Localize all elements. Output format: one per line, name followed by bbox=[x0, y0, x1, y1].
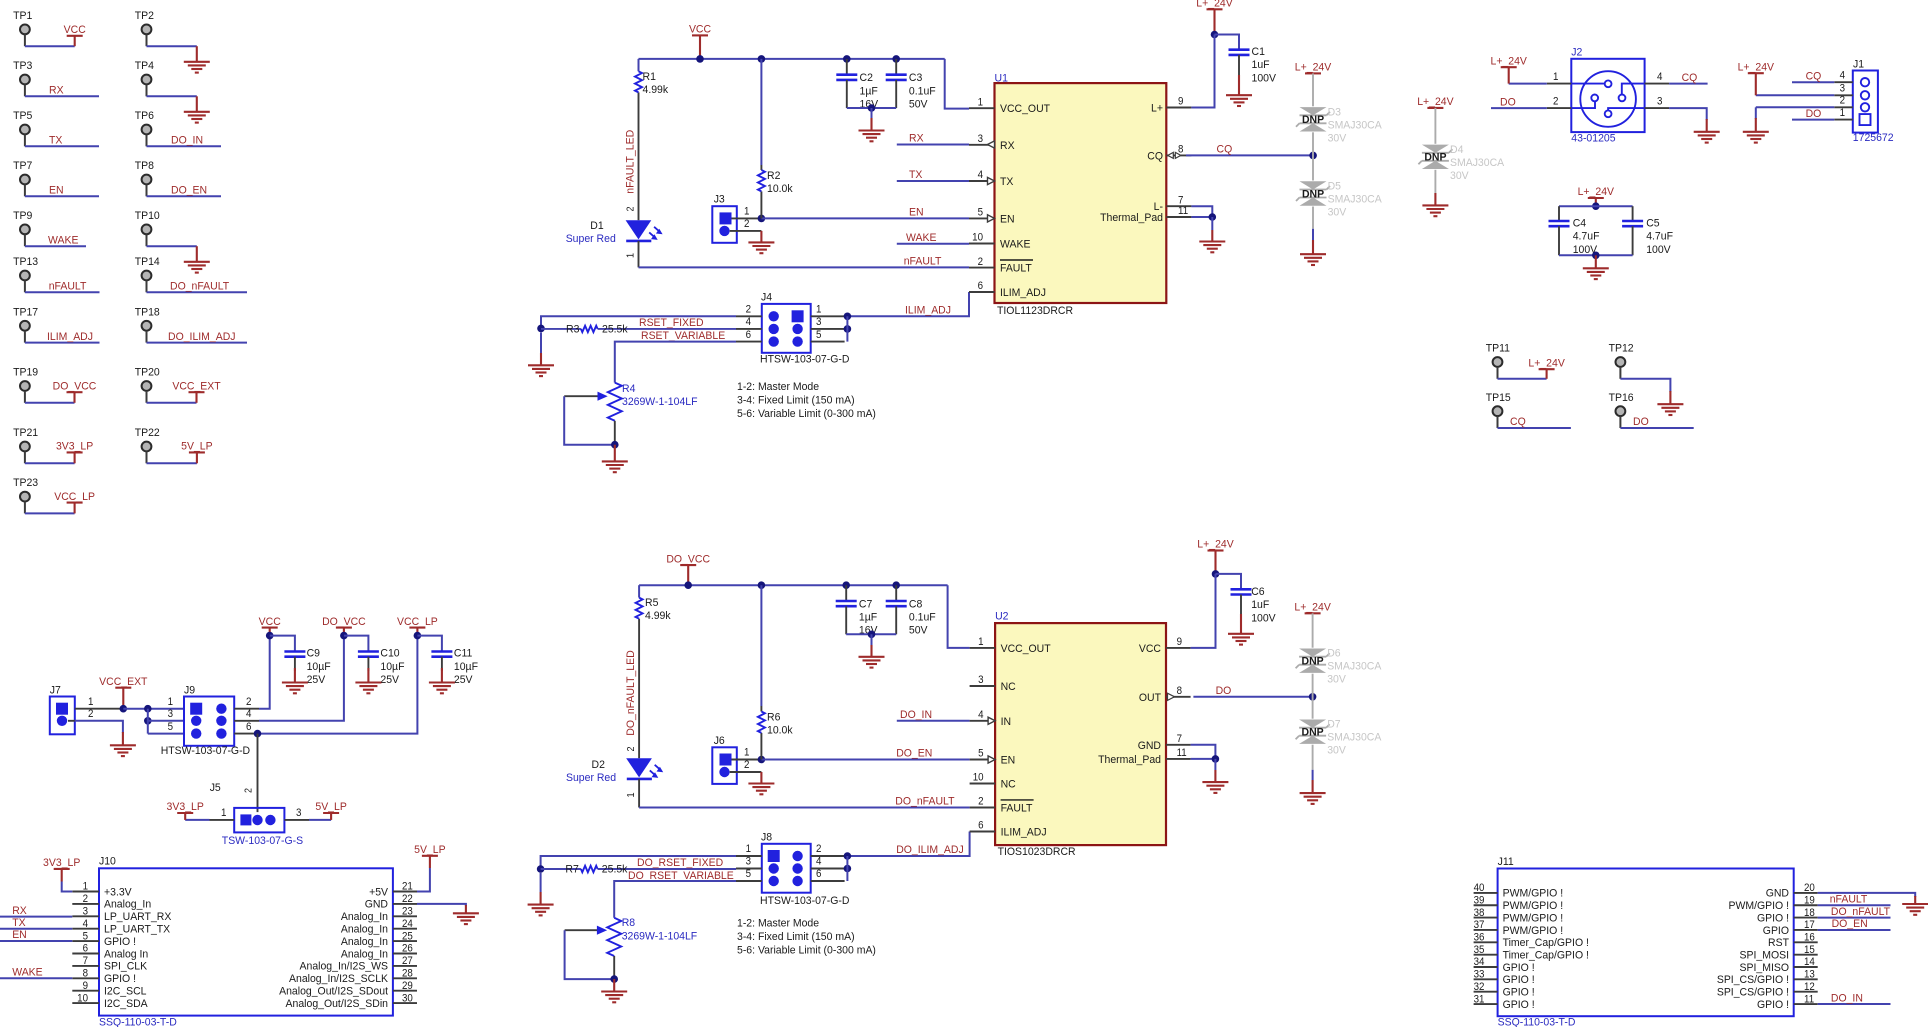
svg-text:100V: 100V bbox=[1646, 244, 1671, 256]
svg-text:PWM/GPIO !: PWM/GPIO ! bbox=[1503, 924, 1564, 936]
svg-text:10.0k: 10.0k bbox=[767, 182, 793, 194]
svg-text:25.5k: 25.5k bbox=[602, 323, 628, 335]
svg-text:DO_nFAULT: DO_nFAULT bbox=[895, 795, 954, 807]
pin 3 RX bbox=[969, 144, 995, 146]
svg-text:24: 24 bbox=[402, 919, 413, 930]
svg-text:Thermal_Pad: Thermal_Pad bbox=[1098, 754, 1161, 766]
ground J2 bbox=[1706, 119, 1708, 132]
J10 pin 9 I2C_SCL bbox=[72, 990, 99, 992]
J11 pin 36 Timer_Cap/GPIO ! bbox=[1474, 941, 1498, 943]
svg-text:DNP: DNP bbox=[1302, 188, 1324, 200]
svg-text:R1: R1 bbox=[643, 71, 656, 83]
wire EN to J10 bbox=[0, 940, 72, 942]
wire J4 right bbox=[846, 316, 848, 341]
svg-text:14: 14 bbox=[1804, 957, 1815, 968]
svg-text:J4: J4 bbox=[761, 291, 772, 303]
junction bbox=[684, 581, 692, 589]
J10 pin 2 Analog_In bbox=[72, 903, 99, 905]
svg-text:SSQ-110-03-T-D: SSQ-110-03-T-D bbox=[1498, 1016, 1576, 1027]
J11 pin 32 GPIO ! bbox=[1474, 991, 1498, 993]
J10 pin 1 +3.3V bbox=[72, 891, 99, 893]
svg-text:CQ: CQ bbox=[1147, 150, 1163, 162]
svg-text:L+_24V: L+_24V bbox=[1738, 61, 1775, 73]
svg-text:TP10: TP10 bbox=[135, 210, 160, 222]
svg-text:1: 1 bbox=[978, 97, 984, 108]
TVS diode D6 DNP bbox=[1299, 649, 1326, 657]
J11 pin 40 PWM/GPIO ! bbox=[1474, 892, 1498, 894]
svg-text:8: 8 bbox=[1177, 686, 1183, 697]
pin 3 NC bbox=[970, 685, 996, 687]
ground D5 bbox=[1312, 207, 1314, 229]
svg-text:TP21: TP21 bbox=[13, 427, 38, 439]
svg-text:L+_24V: L+_24V bbox=[1197, 538, 1234, 550]
wire J8 pin5 bbox=[614, 881, 736, 918]
ground D7 bbox=[1312, 745, 1314, 770]
svg-text:5: 5 bbox=[816, 329, 822, 340]
wire bbox=[25, 402, 75, 404]
svg-text:GPIO !: GPIO ! bbox=[1503, 986, 1535, 998]
junction bbox=[120, 705, 128, 713]
svg-text:1µF: 1µF bbox=[859, 611, 878, 623]
svg-text:1-2: Master Mode: 1-2: Master Mode bbox=[737, 917, 819, 929]
junction bbox=[1212, 755, 1220, 763]
ground J1 bbox=[1755, 118, 1757, 132]
ground D4 bbox=[1434, 170, 1436, 193]
junction bbox=[1592, 252, 1600, 260]
ground bbox=[196, 46, 198, 62]
svg-text:RX: RX bbox=[1000, 139, 1015, 151]
svg-text:5: 5 bbox=[83, 931, 89, 942]
junction bbox=[844, 852, 852, 860]
pin 6 ILIM_ADJ bbox=[969, 291, 995, 293]
J10 pin 10 I2C_SDA bbox=[72, 1002, 99, 1004]
svg-text:TP6: TP6 bbox=[135, 110, 154, 122]
svg-text:6: 6 bbox=[246, 721, 252, 732]
wire GND thermal U2 bbox=[1191, 745, 1216, 759]
ground bbox=[196, 246, 198, 262]
wire cap gnd bbox=[847, 107, 896, 109]
J10 pin 30 Analog_Out/I2S_SDin bbox=[393, 1002, 417, 1004]
svg-text:10: 10 bbox=[972, 232, 983, 243]
pin 7 L- bbox=[1166, 205, 1191, 207]
svg-text:OUT: OUT bbox=[1139, 691, 1161, 703]
wire J9 pin4 DO_VCC bbox=[259, 636, 344, 721]
wire VCC bus bbox=[639, 58, 945, 60]
svg-text:2: 2 bbox=[746, 304, 752, 315]
J11 pin 13 SPI_CS/GPIO ! bbox=[1794, 978, 1818, 980]
ground C6 bbox=[1240, 614, 1242, 634]
junction bbox=[844, 865, 852, 873]
svg-text:6: 6 bbox=[83, 943, 89, 954]
ground C1 bbox=[1238, 75, 1240, 95]
svg-text:25.5k: 25.5k bbox=[602, 863, 628, 875]
svg-text:L+_24V: L+_24V bbox=[1490, 55, 1527, 67]
svg-text:1: 1 bbox=[746, 844, 752, 855]
wire DO bbox=[1193, 696, 1312, 698]
resistor R1 bbox=[635, 71, 642, 92]
svg-text:GPIO !: GPIO ! bbox=[104, 973, 136, 985]
svg-text:TP9: TP9 bbox=[13, 210, 32, 222]
wire DO_nFAULT bbox=[639, 807, 970, 809]
svg-text:11: 11 bbox=[1178, 206, 1188, 217]
svg-text:DO_VCC: DO_VCC bbox=[666, 553, 710, 565]
J10 pin 5 GPIO ! bbox=[72, 940, 99, 942]
junction bbox=[844, 313, 852, 321]
ground C4C5 bbox=[1595, 255, 1597, 268]
svg-text:D4: D4 bbox=[1450, 143, 1463, 155]
svg-text:TP11: TP11 bbox=[1486, 342, 1510, 354]
svg-text:VCC: VCC bbox=[64, 24, 86, 36]
J1 pin4 wire bbox=[1834, 81, 1853, 83]
svg-text:30: 30 bbox=[402, 993, 413, 1004]
svg-text:5V_LP: 5V_LP bbox=[181, 440, 212, 452]
svg-text:3: 3 bbox=[83, 906, 89, 917]
svg-text:4: 4 bbox=[978, 170, 984, 181]
svg-text:WAKE: WAKE bbox=[1000, 238, 1030, 250]
svg-text:FAULT: FAULT bbox=[1001, 802, 1033, 814]
pin 2 FAULT bbox=[970, 807, 996, 809]
wire J4 pin6 bbox=[615, 342, 736, 383]
svg-text:SMAJ30CA: SMAJ30CA bbox=[1327, 731, 1382, 743]
junction bbox=[758, 215, 766, 223]
svg-text:C2: C2 bbox=[860, 72, 873, 84]
svg-text:28: 28 bbox=[402, 968, 413, 979]
svg-text:15: 15 bbox=[1804, 945, 1815, 956]
svg-text:J11: J11 bbox=[1498, 855, 1514, 867]
svg-text:TP16: TP16 bbox=[1609, 391, 1634, 403]
wire WAKE to J10 bbox=[0, 977, 72, 979]
svg-text:2: 2 bbox=[1553, 96, 1559, 107]
svg-text:1µF: 1µF bbox=[860, 85, 879, 97]
svg-text:TP23: TP23 bbox=[13, 477, 38, 489]
J10 pin 24 Analog_In bbox=[393, 928, 417, 930]
TVS diode D7 DNP bbox=[1299, 720, 1326, 728]
svg-text:D6: D6 bbox=[1327, 647, 1340, 659]
svg-text:LP_UART_RX: LP_UART_RX bbox=[104, 911, 172, 923]
capacitor C7 bbox=[845, 585, 847, 601]
svg-text:4.7uF: 4.7uF bbox=[1646, 230, 1673, 242]
wire R2 branch bbox=[760, 59, 762, 165]
svg-text:DO_EN: DO_EN bbox=[171, 184, 207, 196]
svg-text:DO_VCC: DO_VCC bbox=[322, 615, 366, 627]
wire bbox=[1498, 378, 1547, 380]
R8 wiper arrow bbox=[565, 929, 598, 931]
svg-text:SMAJ30CA: SMAJ30CA bbox=[1327, 660, 1382, 672]
pin 4 TX bbox=[969, 180, 995, 182]
wire bbox=[147, 95, 197, 97]
svg-text:VCC: VCC bbox=[689, 23, 711, 35]
svg-text:D7: D7 bbox=[1327, 718, 1340, 730]
J2 pin1 wire bbox=[1547, 83, 1572, 85]
J10 pin 27 Analog_In/I2S_WS bbox=[393, 965, 417, 967]
svg-text:GPIO !: GPIO ! bbox=[104, 936, 136, 948]
svg-text:GPIO: GPIO bbox=[1763, 924, 1789, 936]
svg-text:D2: D2 bbox=[592, 759, 605, 771]
svg-text:LP_UART_TX: LP_UART_TX bbox=[104, 923, 171, 935]
svg-text:10.0k: 10.0k bbox=[767, 724, 793, 736]
svg-text:1: 1 bbox=[83, 881, 89, 892]
ground R3 bbox=[540, 332, 542, 353]
svg-text:32: 32 bbox=[1474, 982, 1485, 993]
pin 11 Thermal_Pad bbox=[1166, 758, 1191, 760]
capacitor C10 bbox=[344, 636, 369, 652]
wire L+ bbox=[1191, 35, 1214, 108]
svg-text:100V: 100V bbox=[1251, 612, 1276, 624]
wire J10 pin1 3V3_LP bbox=[62, 882, 73, 892]
wire bbox=[147, 145, 222, 147]
svg-text:GPIO !: GPIO ! bbox=[1503, 998, 1535, 1010]
svg-text:ILIM_ADJ: ILIM_ADJ bbox=[47, 330, 93, 342]
svg-text:R6: R6 bbox=[767, 711, 780, 723]
svg-text:1: 1 bbox=[816, 304, 822, 315]
svg-text:4: 4 bbox=[83, 919, 89, 930]
svg-text:12: 12 bbox=[1804, 982, 1815, 993]
wire J10 pin21 5V_LP bbox=[417, 868, 430, 892]
svg-text:SPI_MISO: SPI_MISO bbox=[1740, 961, 1789, 973]
wire DO_ILIM_ADJ bbox=[847, 832, 969, 857]
capacitor C9 bbox=[270, 636, 295, 652]
svg-text:1: 1 bbox=[1553, 71, 1559, 82]
J10 pin 23 Analog_In bbox=[393, 915, 417, 917]
wire bbox=[1620, 427, 1693, 429]
svg-text:C7: C7 bbox=[859, 598, 872, 610]
svg-text:2: 2 bbox=[242, 788, 253, 793]
wire J4 pin2 bbox=[541, 316, 736, 328]
junction bbox=[414, 632, 422, 640]
svg-text:DO: DO bbox=[1216, 685, 1232, 697]
ground C2 C3 bbox=[871, 108, 873, 118]
svg-text:25V: 25V bbox=[307, 674, 326, 686]
wire L- thermal bbox=[1191, 206, 1212, 217]
pin 1 VCC_OUT bbox=[969, 107, 995, 109]
capacitor C3 bbox=[895, 59, 897, 75]
ground J6 bbox=[760, 772, 762, 784]
svg-text:Analog_In/I2S_SCLK: Analog_In/I2S_SCLK bbox=[289, 973, 389, 985]
wire bbox=[25, 45, 75, 47]
svg-text:VCC_EXT: VCC_EXT bbox=[99, 676, 148, 688]
svg-text:25V: 25V bbox=[380, 674, 399, 686]
wire J5 pin1 bbox=[185, 819, 209, 821]
wire J7 pin2 gnd bbox=[75, 721, 123, 733]
svg-text:25: 25 bbox=[402, 931, 413, 942]
svg-text:5: 5 bbox=[978, 207, 984, 218]
svg-text:TP4: TP4 bbox=[135, 60, 154, 72]
svg-text:Super Red: Super Red bbox=[566, 232, 616, 244]
pin 10 NC bbox=[970, 783, 996, 785]
svg-text:1: 1 bbox=[624, 253, 635, 258]
wire J8 pin1 bbox=[541, 856, 736, 869]
junction bbox=[1309, 693, 1317, 701]
svg-text:R7: R7 bbox=[565, 863, 578, 875]
wire bbox=[147, 402, 197, 404]
svg-text:SMAJ30CA: SMAJ30CA bbox=[1328, 193, 1383, 205]
svg-text:TP17: TP17 bbox=[13, 306, 38, 318]
resistor R2 bbox=[758, 170, 765, 191]
junction bbox=[696, 55, 704, 63]
svg-text:J1: J1 bbox=[1853, 58, 1864, 70]
svg-text:2: 2 bbox=[1840, 95, 1846, 106]
svg-text:Super Red: Super Red bbox=[566, 772, 616, 784]
pin 7 GND bbox=[1166, 744, 1191, 746]
svg-text:DO_ILIM_ADJ: DO_ILIM_ADJ bbox=[896, 844, 964, 856]
pin 8 CQ bbox=[1166, 154, 1191, 156]
svg-text:2: 2 bbox=[978, 256, 984, 267]
capacitor C6 bbox=[1216, 574, 1242, 589]
svg-text:R4: R4 bbox=[622, 383, 635, 395]
svg-text:DO_IN: DO_IN bbox=[900, 709, 932, 721]
junction bbox=[1309, 152, 1317, 160]
svg-text:Analog_In: Analog_In bbox=[341, 948, 388, 960]
svg-text:C9: C9 bbox=[307, 647, 320, 659]
svg-text:5-6: Variable Limit (0-300 mA): 5-6: Variable Limit (0-300 mA) bbox=[737, 944, 876, 956]
svg-text:2: 2 bbox=[246, 697, 252, 708]
svg-text:10: 10 bbox=[973, 772, 984, 783]
LED D2 bbox=[626, 758, 652, 777]
ground R7 bbox=[540, 873, 542, 892]
svg-text:DO_VCC: DO_VCC bbox=[53, 380, 97, 392]
svg-text:U2: U2 bbox=[995, 610, 1008, 622]
wire VCC_OUT U2 bbox=[948, 585, 970, 648]
svg-text:VCC_OUT: VCC_OUT bbox=[1001, 643, 1051, 655]
J11 pin 19 PWM/GPIO ! bbox=[1794, 904, 1818, 906]
svg-text:HTSW-103-07-G-D: HTSW-103-07-G-D bbox=[161, 745, 251, 757]
J10 pin 6 Analog In bbox=[72, 953, 99, 955]
svg-text:DO: DO bbox=[1633, 416, 1649, 428]
wire J11 pin20 GND bbox=[1818, 893, 1916, 897]
J11 pin 33 GPIO ! bbox=[1474, 978, 1498, 980]
wire bbox=[1620, 379, 1670, 392]
potentiometer R4 bbox=[608, 383, 622, 421]
svg-text:FAULT: FAULT bbox=[1000, 262, 1032, 274]
J11 pin 37 PWM/GPIO ! bbox=[1474, 929, 1498, 931]
svg-text:R5: R5 bbox=[645, 596, 658, 608]
svg-text:RSET_FIXED: RSET_FIXED bbox=[639, 317, 704, 329]
J10 pin 26 Analog_In bbox=[393, 953, 417, 955]
junction bbox=[144, 705, 152, 713]
svg-text:35: 35 bbox=[1474, 945, 1485, 956]
svg-text:2: 2 bbox=[88, 709, 94, 720]
wire C4C5 bottom bbox=[1559, 254, 1633, 256]
wire EN bbox=[761, 217, 969, 219]
svg-text:VCC_LP: VCC_LP bbox=[54, 490, 95, 502]
svg-text:VCC: VCC bbox=[1139, 643, 1161, 655]
svg-text:TP14: TP14 bbox=[135, 256, 160, 268]
J2 pin3 wire bbox=[1645, 107, 1670, 109]
svg-text:DO_EN: DO_EN bbox=[1832, 918, 1868, 930]
svg-text:NC: NC bbox=[1001, 681, 1016, 693]
J11 pin 16 RST bbox=[1794, 941, 1818, 943]
svg-text:5: 5 bbox=[978, 748, 984, 759]
svg-text:R8: R8 bbox=[622, 917, 635, 929]
svg-text:TX: TX bbox=[1000, 176, 1014, 188]
svg-text:4: 4 bbox=[1840, 70, 1846, 81]
svg-text:GPIO !: GPIO ! bbox=[1503, 974, 1535, 986]
svg-text:L+_24V: L+_24V bbox=[1294, 601, 1331, 613]
wire R5 branch bbox=[638, 585, 640, 597]
svg-text:5: 5 bbox=[168, 721, 174, 732]
svg-text:7: 7 bbox=[1178, 195, 1184, 206]
ground J7 bbox=[122, 732, 124, 745]
svg-text:WAKE: WAKE bbox=[48, 234, 78, 246]
J10 pin 8 GPIO ! bbox=[72, 977, 99, 979]
svg-text:EN: EN bbox=[1000, 213, 1015, 225]
J10 pin 3 LP_UART_RX bbox=[72, 915, 99, 917]
svg-text:9: 9 bbox=[83, 981, 89, 992]
wire nFAULT J11 bbox=[1818, 904, 1891, 906]
J10 pin 25 Analog_In bbox=[393, 940, 417, 942]
svg-text:5V_LP: 5V_LP bbox=[315, 801, 346, 813]
wire bbox=[147, 342, 248, 344]
wire bbox=[25, 245, 86, 247]
pin 9 L+ bbox=[1166, 107, 1191, 109]
svg-text:PWM/GPIO !: PWM/GPIO ! bbox=[1728, 900, 1789, 912]
svg-text:DO_ILIM_ADJ: DO_ILIM_ADJ bbox=[168, 330, 236, 342]
svg-text:4.99k: 4.99k bbox=[643, 84, 669, 96]
svg-text:0.1uF: 0.1uF bbox=[909, 85, 936, 97]
svg-text:C10: C10 bbox=[380, 647, 399, 659]
svg-text:3: 3 bbox=[1840, 83, 1846, 94]
J10 pin 7 SPI_CLK bbox=[72, 965, 99, 967]
wire bbox=[25, 342, 100, 344]
svg-text:NC: NC bbox=[1001, 778, 1016, 790]
resistor R7 bbox=[541, 868, 581, 870]
svg-text:L+: L+ bbox=[1151, 102, 1163, 114]
svg-text:TX: TX bbox=[909, 169, 923, 181]
svg-text:Timer_Cap/GPIO !: Timer_Cap/GPIO ! bbox=[1503, 949, 1589, 961]
svg-text:6: 6 bbox=[746, 329, 752, 340]
svg-text:CQ: CQ bbox=[1682, 71, 1698, 83]
svg-text:nFAULT: nFAULT bbox=[49, 280, 87, 292]
J11 pin 18 GPIO ! bbox=[1794, 917, 1818, 919]
junction bbox=[892, 55, 900, 63]
svg-text:10: 10 bbox=[77, 993, 88, 1004]
wire RX bbox=[897, 144, 969, 146]
svg-text:TP20: TP20 bbox=[135, 366, 160, 378]
svg-text:50V: 50V bbox=[909, 98, 928, 110]
svg-text:0.1uF: 0.1uF bbox=[909, 611, 936, 623]
svg-text:PWM/GPIO !: PWM/GPIO ! bbox=[1503, 900, 1564, 912]
svg-text:Analog_Out/I2S_SDin: Analog_Out/I2S_SDin bbox=[286, 998, 388, 1010]
J1 pin3 wire bbox=[1834, 94, 1853, 96]
wire DO_IN bbox=[897, 720, 970, 722]
wire J8 right bbox=[846, 856, 848, 881]
capacitor C2 bbox=[846, 59, 848, 75]
svg-text:Analog_Out/I2S_SDout: Analog_Out/I2S_SDout bbox=[279, 985, 388, 997]
J11 pin 11 GPIO ! bbox=[1794, 1003, 1818, 1005]
svg-text:6: 6 bbox=[978, 281, 984, 292]
svg-text:J10: J10 bbox=[99, 855, 116, 867]
svg-text:Analog_In: Analog_In bbox=[341, 911, 388, 923]
svg-text:J8: J8 bbox=[761, 831, 772, 843]
svg-text:3: 3 bbox=[816, 317, 822, 328]
wire VCC_OUT bbox=[945, 59, 969, 109]
svg-text:EN: EN bbox=[909, 206, 924, 218]
svg-text:3269W-1-104LF: 3269W-1-104LF bbox=[622, 396, 698, 408]
svg-text:3V3_LP: 3V3_LP bbox=[167, 801, 204, 813]
svg-text:1: 1 bbox=[168, 697, 174, 708]
svg-text:3-4: Fixed Limit (150 mA): 3-4: Fixed Limit (150 mA) bbox=[737, 394, 855, 406]
svg-text:GPIO !: GPIO ! bbox=[1757, 998, 1789, 1010]
svg-text:TIOL1123DRCR: TIOL1123DRCR bbox=[997, 304, 1073, 316]
svg-text:J5: J5 bbox=[210, 782, 221, 794]
J11 pin 34 GPIO ! bbox=[1474, 966, 1498, 968]
wire RX to J10 bbox=[0, 916, 72, 918]
wire J9 pin2 VCC bbox=[259, 636, 270, 709]
svg-text:RX: RX bbox=[49, 84, 64, 96]
svg-text:3: 3 bbox=[168, 709, 174, 720]
svg-text:4: 4 bbox=[978, 710, 984, 721]
svg-text:10µF: 10µF bbox=[454, 661, 478, 673]
